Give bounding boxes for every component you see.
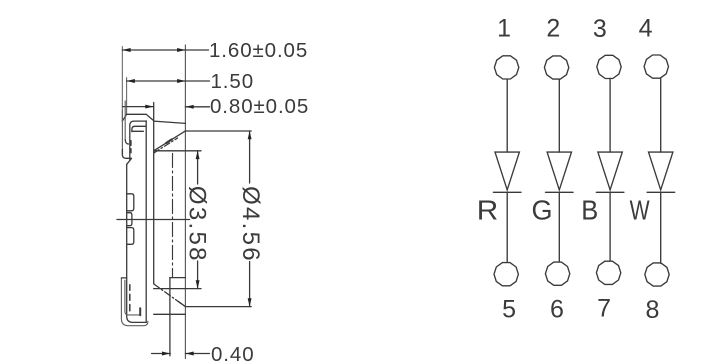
svg-text:W: W	[630, 195, 650, 226]
arrowhead right of 1.60 dim	[177, 48, 185, 52]
svg-text:0.40: 0.40	[211, 343, 255, 364]
dimension line 1.60±0.05	[122, 49, 208, 51]
Ø4.56 dimension line upper segment	[249, 131, 251, 183]
LED G diode triangle	[547, 152, 571, 190]
lead top outer line	[121, 111, 123, 156]
Ø3.58 extension line top	[154, 150, 201, 152]
pin 2 terminal circle	[544, 56, 568, 79]
pin 8 terminal circle	[645, 263, 669, 286]
Ø4.56 extension line bottom	[185, 306, 251, 308]
centerline vertical x=172.5 (dash-dot)	[172, 154, 174, 278]
wire pin3 to LED B anode	[609, 78, 611, 152]
svg-text:1.50: 1.50	[211, 70, 255, 93]
side notch tab upper	[127, 194, 134, 211]
svg-text:Ø4.56: Ø4.56	[237, 186, 264, 263]
wire LED W cathode to pin 8	[660, 192, 662, 263]
dimension line 1.50	[127, 80, 210, 82]
svg-text:R: R	[477, 195, 499, 226]
wire LED B cathode to pin 7	[609, 192, 611, 261]
body inner top step	[132, 126, 146, 131]
wire LED R cathode to pin 5	[506, 192, 508, 262]
wire pin1 to LED R anode	[506, 79, 508, 152]
svg-text:B: B	[581, 195, 598, 226]
arrowhead pointing right at x=153.6	[145, 105, 153, 109]
recess box vertical x=169.9 / 0.40 extension	[169, 278, 171, 356]
svg-text:G: G	[532, 195, 553, 226]
arrowhead down Ø4.56	[248, 298, 252, 306]
LED W diode triangle	[649, 152, 673, 190]
svg-text:Ø3.58: Ø3.58	[183, 186, 210, 263]
lead bottom end face	[139, 308, 141, 315]
body left edge x=126.7	[127, 164, 147, 322]
LED W cathode bar	[647, 191, 675, 193]
hidden dash line bottom lead	[129, 285, 131, 311]
svg-text:6: 6	[550, 296, 564, 324]
Ø3.58 dimension line upper segment	[197, 151, 199, 184]
LED B cathode bar	[596, 191, 624, 193]
package top chamfer outline	[122, 114, 153, 121]
svg-text:5: 5	[502, 295, 516, 323]
svg-text:4: 4	[639, 14, 653, 42]
recess box top edge	[170, 277, 186, 279]
svg-text:7: 7	[597, 295, 611, 323]
arrowhead up Ø3.58	[196, 151, 200, 159]
arrowhead pointing left at x=185.4	[185, 352, 193, 356]
LED R diode triangle	[495, 152, 519, 190]
Ø3.58 dimension line lower segment	[197, 261, 199, 289]
LED R cathode bar	[493, 191, 521, 193]
package front vertical edge x=153.7	[153, 103, 155, 284]
arrowhead pointing right at x=170.3	[162, 352, 170, 356]
body right edge x=146.2	[145, 121, 147, 323]
pin 7 terminal circle	[596, 261, 620, 284]
wire pin2 to LED G anode	[558, 79, 560, 152]
svg-text:3: 3	[593, 15, 607, 43]
arrowhead left of 1.60 dim	[122, 48, 130, 52]
arrowhead up Ø4.56	[248, 131, 252, 139]
svg-text:8: 8	[646, 296, 660, 324]
lead bottom hook inner	[125, 280, 140, 315]
svg-text:0.80±0.05: 0.80±0.05	[210, 95, 309, 118]
dimension line 0.80±0.05 right part	[185, 106, 209, 108]
lead top inner curl	[125, 140, 128, 144]
Ø4.56 dimension line lower segment	[249, 262, 251, 307]
Ø3.58 extension line bottom	[154, 288, 201, 290]
svg-text:1.60±0.05: 1.60±0.05	[209, 39, 308, 62]
Ø4.56 extension line top	[185, 130, 251, 132]
side notch tab middle small	[127, 213, 132, 226]
LED G cathode bar	[546, 191, 574, 193]
cone hidden diagonal dark dash	[166, 139, 171, 143]
cone edge diagonal top (solid)	[154, 131, 186, 151]
arrowhead right of 1.50 dim	[177, 79, 185, 83]
wire pin4 to LED W anode	[660, 78, 662, 152]
arrowhead down Ø3.58	[196, 280, 200, 288]
side notch tab lower	[127, 228, 134, 245]
pin 4 terminal circle	[644, 55, 668, 78]
cone hidden diagonal top (dash-dot)	[154, 138, 178, 153]
pin 6 terminal circle	[545, 262, 569, 285]
pin 5 terminal circle	[494, 263, 518, 286]
svg-text:1: 1	[497, 15, 511, 43]
hidden dash line top lead	[130, 141, 132, 153]
arrowhead pointing left at x=185.4	[185, 105, 193, 109]
svg-text:2: 2	[546, 15, 560, 43]
package top face slope line	[154, 121, 186, 123]
arrowhead left of 1.50 dim	[127, 79, 135, 83]
pin 3 terminal circle	[597, 55, 621, 78]
cone edge diagonal bottom (dash-dot)	[154, 284, 186, 307]
cone diagonal bottom solid tail	[179, 302, 186, 307]
wire LED G cathode to pin 6	[558, 192, 560, 262]
extension line right (shared, x=185.4)	[184, 45, 186, 359]
dimension 1.50 extension line left	[126, 78, 128, 115]
centerline horizontal y=219.5	[117, 219, 190, 221]
lead bottom hook outer	[121, 278, 147, 326]
pin 1 terminal circle	[494, 56, 518, 79]
LED B diode triangle	[598, 152, 622, 190]
dimension 1.60±0.05 extension line left	[121, 47, 123, 121]
flange bottom line y=314.3	[154, 313, 186, 315]
lead bottom hook top edge	[121, 277, 126, 279]
body upper-left edge	[130, 121, 146, 160]
dimension line 0.40 left part	[152, 353, 171, 355]
body inner top bar	[132, 130, 144, 132]
lead top inner line	[124, 101, 126, 140]
lead top end fold	[122, 150, 131, 159]
dimension line 0.80±0.05 left part	[123, 106, 154, 108]
step diagonal to wide body edge	[127, 159, 132, 165]
dimension line 0.40 right part	[185, 353, 209, 355]
